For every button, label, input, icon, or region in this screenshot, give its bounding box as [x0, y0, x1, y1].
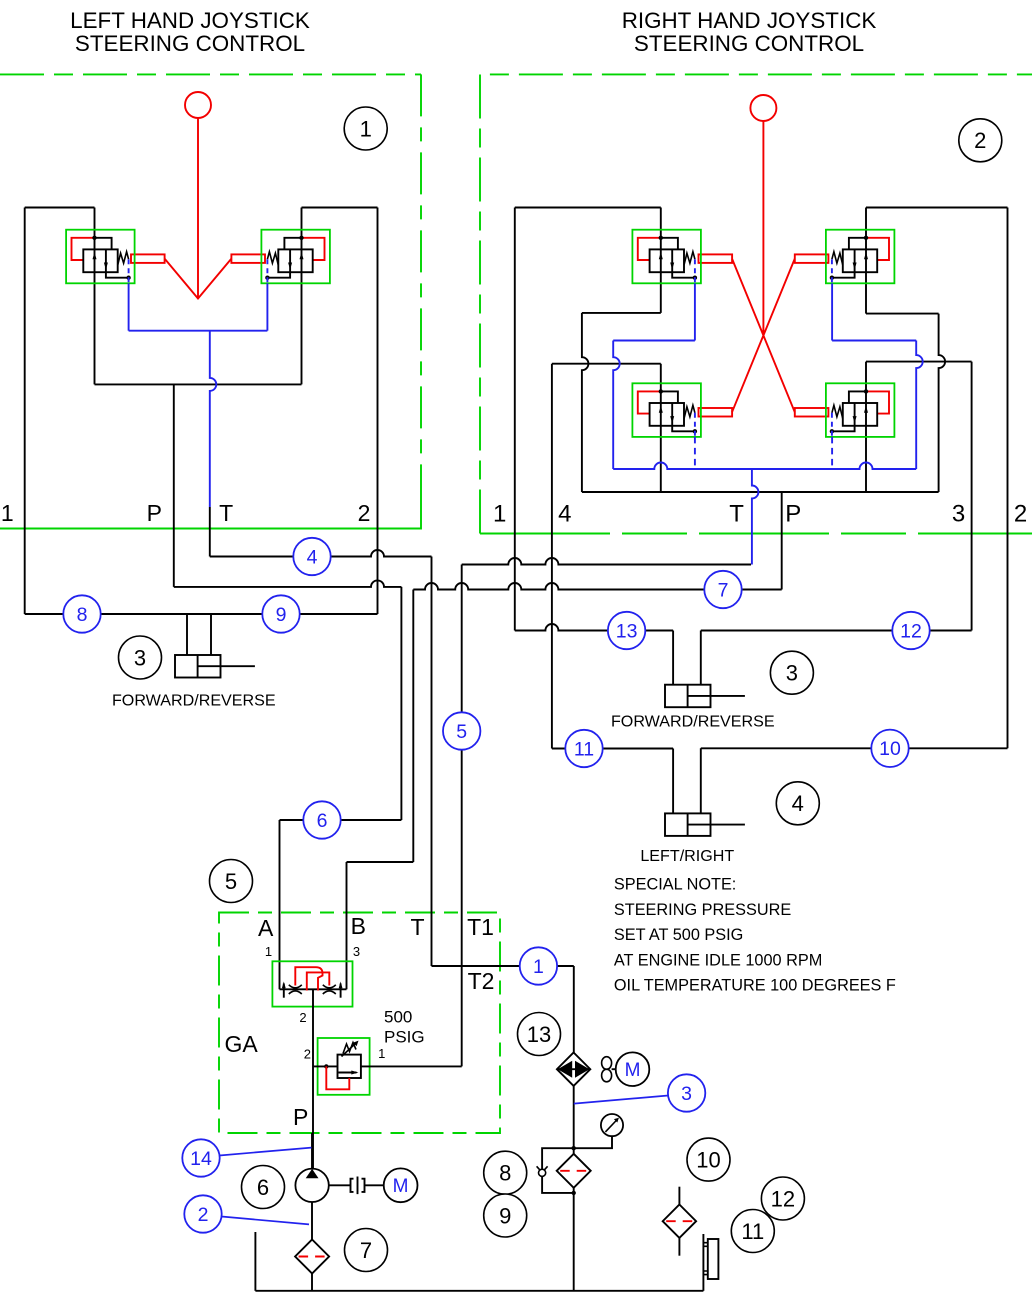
hose callout 10	[871, 730, 908, 767]
svg-text:6: 6	[257, 1175, 269, 1200]
wire: GA link B	[347, 861, 414, 863]
svg-text:14: 14	[190, 1148, 212, 1170]
electric motor M (fan)	[616, 1052, 650, 1086]
forward/reverse actuator (LH) rod	[198, 665, 255, 667]
gauge tap junction	[572, 1146, 576, 1150]
pilot valve RH-BL drain link	[672, 426, 695, 432]
wire: LH port 2 riser	[377, 208, 379, 615]
pilot valve LH-left body	[83, 249, 117, 272]
wire: cooler to filter	[573, 1086, 575, 1154]
wire: LH port 1 riser	[24, 208, 26, 615]
pilot valve RH-TR bypass line	[849, 238, 866, 250]
pusher pad RH bottom-right	[795, 408, 829, 417]
svg-text:500: 500	[384, 1008, 412, 1027]
svg-text:3: 3	[681, 1083, 692, 1105]
svg-text:B: B	[351, 913, 366, 939]
wire: hose 4 run (LH T to GA T2)	[210, 550, 432, 557]
pilot valve RH-BL green enclosure	[632, 383, 701, 437]
svg-text:3: 3	[786, 661, 798, 686]
wire: strainer to tank line	[311, 1273, 313, 1291]
svg-text:1: 1	[1, 500, 14, 526]
pilot valve RH-BL body	[650, 403, 684, 426]
pilot valve RH-BL flow arrow	[659, 406, 663, 413]
wire: LH tank header (blue)	[129, 330, 268, 332]
wire: RH TR valve main line	[865, 208, 867, 314]
offline filter element (red dashed)	[666, 1220, 692, 1222]
pusher pad right	[231, 254, 265, 263]
item callout 4	[776, 782, 819, 825]
breather tick upper	[703, 1243, 707, 1247]
wire: RH LR actuator drop left	[672, 749, 674, 814]
wire: tank bottom line	[255, 1290, 703, 1292]
pilot valve RH-TR green enclosure	[826, 230, 895, 284]
svg-text:9: 9	[276, 604, 287, 626]
item callout 7	[345, 1229, 388, 1272]
pilot valve LH-left green enclosure	[66, 230, 135, 284]
svg-text:12: 12	[900, 620, 922, 642]
pilot valve RH-TL red pilot loop	[638, 238, 661, 260]
svg-text:5: 5	[225, 869, 237, 894]
pilot valve LH-left spring	[118, 252, 129, 266]
left/right actuator (RH) piston divider	[687, 813, 689, 836]
pump shaft	[329, 1184, 351, 1186]
pilot valve LH-left flow arrow	[93, 252, 97, 259]
relief pilot tap junction	[324, 1064, 328, 1068]
wire: RH FR actuator drop right	[700, 631, 702, 685]
joystick handle ball (right)	[750, 95, 776, 121]
forward/reverse actuator (RH) rod	[688, 695, 745, 697]
hose callout 8	[63, 595, 100, 632]
wire: RH TR valve elbow	[866, 313, 939, 315]
wire: RH tank header TR (blue)	[832, 340, 916, 342]
wire: T2 link through callout 1	[432, 965, 574, 967]
wire: RH tank right drop (blue, jumps port3 link)	[916, 341, 923, 470]
svg-text:4: 4	[558, 501, 571, 528]
wire: RH FR actuator drop left	[672, 631, 674, 685]
wire: relief valve outlet to T1	[361, 1065, 462, 1067]
right joystick enclosure (dashed)	[480, 74, 1032, 533]
svg-text:P: P	[293, 1104, 308, 1130]
GA shuttle valve body line	[280, 988, 347, 990]
hose callout 2	[184, 1195, 221, 1232]
wire: GA B drop	[412, 590, 414, 863]
return filter element (red dashed)	[560, 1170, 587, 1172]
svg-text:A: A	[258, 915, 274, 941]
wire: tank stub	[254, 1232, 256, 1291]
pilot valve LH-right drain link	[267, 272, 290, 278]
pilot valve RH-TR reduced-flow spool line	[854, 249, 856, 272]
wire: hose 11 line	[552, 748, 673, 750]
pilot valve RH-BL bypass line	[661, 391, 678, 403]
wire: RH BR valve main line	[865, 362, 867, 492]
svg-text:FORWARD/REVERSE: FORWARD/REVERSE	[112, 691, 276, 709]
pilot valve RH-BR green enclosure	[826, 383, 895, 437]
left joystick enclosure (dashed)	[0, 73, 421, 75]
relief valve green enclosure	[318, 1038, 370, 1095]
relief valve spring	[343, 1043, 356, 1054]
pusher pad RH top-left	[699, 254, 733, 263]
wire: RH pressure header	[582, 491, 939, 493]
wire: pump suction	[311, 1202, 313, 1240]
svg-text:13: 13	[616, 620, 638, 642]
svg-text:13: 13	[527, 1022, 551, 1047]
wire: LH left valve main line	[94, 208, 96, 385]
wire: relief valve inlet	[313, 1065, 338, 1067]
wire: filter to tank	[573, 1188, 575, 1291]
forward/reverse actuator (LH) piston divider	[197, 655, 199, 678]
breather body	[708, 1239, 719, 1279]
pilot valve RH-TL reduced-flow spool line	[671, 249, 673, 272]
svg-text:LEFT/RIGHT: LEFT/RIGHT	[640, 847, 734, 865]
offline filter housing	[663, 1205, 696, 1238]
wire: RH port 3 riser	[971, 362, 973, 631]
relief valve adjust arrow	[342, 1043, 357, 1057]
pilot valve LH-left bypass line	[95, 238, 112, 250]
item callout 3	[770, 651, 813, 694]
pilot valve RH-BR flow arrow	[864, 406, 868, 413]
electric motor M (pump)	[384, 1168, 418, 1202]
filter bypass upper	[542, 1148, 574, 1169]
svg-text:5: 5	[456, 721, 467, 743]
svg-text:T2: T2	[468, 968, 495, 994]
hose callout 1	[520, 947, 557, 984]
item callout 6	[242, 1166, 285, 1209]
wire: hose run LH P to GA A	[174, 580, 402, 587]
wire: RH tank header TL (blue)	[613, 340, 695, 342]
left joystick enclosure right edge (dashed)	[420, 74, 422, 488]
wire: RH TL drop (jumps port4 line)	[582, 313, 589, 492]
wire: RH BR pilot drop (blue)	[831, 437, 833, 469]
wire: hose 13 line	[515, 624, 673, 631]
GA shuttle red outer pilot	[295, 967, 322, 990]
GA shuttle check arrow right	[340, 984, 342, 998]
pilot valve RH-BR bypass line	[849, 391, 866, 403]
wire: LH supply top left	[25, 207, 95, 209]
bypass junction	[572, 1191, 576, 1195]
svg-text:1: 1	[493, 501, 506, 528]
GA shuttle orifice left	[289, 985, 302, 988]
svg-text:AT ENGINE IDLE 1000 RPM: AT ENGINE IDLE 1000 RPM	[614, 951, 822, 969]
breather tick lower	[703, 1271, 707, 1275]
svg-text:T: T	[729, 501, 744, 528]
item callout 3	[119, 636, 162, 679]
forward/reverse actuator (LH) body	[175, 655, 221, 678]
pilot valve RH-TL pilot sense line (dashed)	[694, 259, 696, 283]
svg-text:6: 6	[317, 810, 328, 832]
svg-text:2: 2	[304, 1047, 311, 1062]
wire: RH BL valve main line	[660, 364, 662, 492]
svg-text:4: 4	[792, 791, 804, 816]
forward/reverse actuator (RH) piston divider	[687, 685, 689, 708]
wire: LH actuator rod drop left	[186, 614, 188, 655]
svg-text:P: P	[147, 500, 162, 526]
pump drive line	[311, 1133, 313, 1169]
svg-text:T: T	[219, 500, 233, 526]
cooler fan	[602, 1057, 612, 1070]
wire: GA shuttle port3 line	[346, 862, 348, 989]
wire: hose 5 run (RH T to GA T1)	[462, 558, 751, 564]
svg-text:3: 3	[353, 944, 360, 959]
pilot valve LH-right flow arrow	[300, 252, 304, 259]
pilot valve RH-BR reduced-flow spool line	[854, 403, 856, 426]
pump	[295, 1169, 328, 1202]
pilot valve LH-right supply junction	[299, 236, 303, 240]
pilot valve RH-TR pilot sense line (dashed)	[831, 259, 833, 283]
hose callout 12	[892, 612, 929, 649]
wire: RH TL valve elbow	[582, 312, 661, 314]
hose callout 11	[565, 730, 602, 767]
relief valve body	[338, 1055, 361, 1078]
svg-text:SPECIAL NOTE:: SPECIAL NOTE:	[614, 876, 736, 894]
svg-text:2: 2	[1014, 501, 1027, 528]
item callout 2	[959, 119, 1002, 162]
svg-text:2: 2	[198, 1204, 209, 1226]
pilot valve LH-left reduced-flow spool line	[105, 249, 107, 272]
svg-text:2: 2	[974, 128, 986, 153]
hose callout 4	[293, 538, 330, 575]
pilot valve LH-right bypass line	[284, 238, 301, 250]
GA shuttle valve green enclosure	[272, 961, 352, 1006]
joystick lever (right)	[732, 121, 795, 412]
svg-text:11: 11	[574, 738, 594, 760]
pilot valve RH-BR drain link	[832, 426, 855, 432]
wire: LH bridge line	[95, 383, 302, 385]
item callout 12	[761, 1177, 804, 1220]
pilot valve RH-BR pilot sense line (dashed)	[831, 413, 833, 437]
filter bypass lower	[542, 1176, 574, 1193]
wire: RH TR drop (jumps port3 line)	[939, 314, 946, 492]
pilot valve RH-TL bypass line	[661, 238, 678, 250]
wire: RH supply top left	[515, 207, 661, 209]
pilot valve RH-BR body	[843, 403, 877, 426]
svg-text:10: 10	[696, 1147, 720, 1172]
hose callout 9	[262, 595, 299, 632]
oil cooler	[557, 1053, 590, 1086]
pressure gauge	[601, 1114, 623, 1136]
wire: GA T drop	[431, 557, 433, 967]
wire: GA link A	[280, 819, 402, 821]
relief valve flow arrow	[339, 1072, 357, 1074]
svg-text:RIGHT HAND JOYSTICK: RIGHT HAND JOYSTICK	[622, 8, 877, 33]
fan shaft	[612, 1068, 616, 1070]
pilot valve RH-TR red pilot loop	[866, 238, 889, 260]
wire: LH tank pilot left (blue)	[128, 283, 130, 289]
joystick handle ball (left)	[185, 92, 211, 118]
svg-text:STEERING CONTROL: STEERING CONTROL	[634, 31, 864, 56]
svg-text:T1: T1	[467, 914, 494, 940]
pusher pad RH bottom-left	[699, 408, 733, 417]
svg-text:3: 3	[134, 645, 146, 670]
svg-text:11: 11	[741, 1219, 764, 1244]
bypass check valve	[539, 1169, 546, 1176]
pilot valve LH-right body	[278, 249, 312, 272]
left/right actuator (RH) body	[665, 813, 711, 836]
pilot valve LH-right spring	[267, 252, 278, 266]
svg-text:1: 1	[265, 944, 272, 959]
leader for callout 2 (blue)	[222, 1217, 310, 1225]
wire: LH T drop (blue, jumps bridge)	[210, 331, 217, 507]
item callout 11	[731, 1210, 774, 1253]
svg-text:10: 10	[879, 738, 901, 760]
wire: RH port4 link	[552, 363, 661, 365]
offline filter outlet stub	[678, 1238, 680, 1256]
pilot valve RH-TL flow arrow	[659, 252, 663, 259]
offline filter inlet stub	[678, 1187, 680, 1205]
wire: RH TL pilot drop (blue)	[694, 283, 696, 340]
svg-text:LEFT HAND JOYSTICK: LEFT HAND JOYSTICK	[70, 8, 310, 33]
svg-text:M: M	[393, 1176, 409, 1197]
pilot valve RH-TR drain link	[832, 272, 855, 278]
wire: LH actuator rod drop right	[210, 614, 212, 655]
wire: hose 8 / hose 9 line	[25, 613, 378, 615]
pusher pad RH top-right	[795, 254, 829, 263]
wire: GA pressure line	[312, 989, 314, 1168]
pilot valve RH-BL supply junction	[659, 389, 663, 393]
suction strainer housing	[295, 1240, 329, 1274]
hose callout 7	[704, 571, 741, 608]
leader for callout 3 (blue)	[574, 1096, 668, 1104]
svg-text:PSIG: PSIG	[384, 1028, 425, 1047]
pilot valve RH-BL reduced-flow spool line	[671, 403, 673, 426]
svg-text:8: 8	[77, 604, 88, 626]
pilot valve RH-BR spring	[832, 405, 843, 419]
wire: LH right valve main line	[301, 208, 303, 385]
svg-text:9: 9	[499, 1203, 511, 1228]
joystick lever (left)	[165, 118, 232, 299]
svg-text:1: 1	[533, 956, 544, 978]
item callout 1	[344, 107, 387, 150]
svg-text:OIL TEMPERATURE 100 DEGREES F: OIL TEMPERATURE 100 DEGREES F	[614, 977, 896, 995]
pilot valve RH-TL body	[650, 249, 684, 272]
item callout 8	[484, 1151, 527, 1194]
svg-text:P: P	[785, 501, 801, 528]
item callout 5	[210, 860, 253, 903]
svg-text:1: 1	[378, 1046, 385, 1061]
hose callout 14	[182, 1139, 219, 1176]
coupling	[351, 1177, 365, 1195]
GA shuttle orifice right	[323, 985, 336, 988]
svg-text:2: 2	[299, 1010, 306, 1025]
svg-text:FORWARD/REVERSE: FORWARD/REVERSE	[611, 713, 775, 731]
wire: RH port 2 riser	[1007, 208, 1009, 749]
wire: GA A drop	[400, 587, 402, 820]
svg-text:T: T	[410, 914, 424, 940]
wire: LH tank pilot right (blue)	[266, 283, 268, 289]
svg-text:7: 7	[360, 1238, 372, 1263]
pilot valve LH-right pilot sense line (dashed)	[266, 259, 268, 283]
GA shuttle check arrow left	[283, 984, 285, 998]
wire: hose 12 line	[701, 630, 972, 632]
wire: LH P drop	[173, 384, 175, 587]
wire: RH tank bottom header (blue)	[613, 463, 916, 470]
pilot valve RH-TR supply junction	[864, 236, 868, 240]
wire: LH supply top right	[302, 207, 378, 209]
wire: LH T drop lower	[209, 507, 211, 557]
svg-text:12: 12	[771, 1186, 795, 1211]
svg-text:7: 7	[718, 579, 729, 601]
GA shuttle red inner pilot	[307, 972, 330, 990]
wire: RH supply top right	[866, 207, 1008, 209]
return filter housing	[557, 1154, 591, 1188]
leader for callout 14 (blue)	[220, 1148, 312, 1156]
pusher pad left	[131, 254, 165, 263]
wire: hose 10 line	[701, 747, 1008, 749]
svg-text:4: 4	[307, 546, 318, 568]
breather standpipe	[702, 1234, 704, 1291]
pilot valve RH-BL red pilot loop	[638, 391, 661, 413]
pilot valve RH-TL supply junction	[659, 236, 663, 240]
pilot valve LH-left pilot sense line (dashed)	[128, 259, 130, 283]
pilot valve LH-right red pilot loop	[302, 238, 325, 260]
svg-text:GA: GA	[225, 1031, 259, 1057]
forward/reverse actuator (RH) body	[665, 685, 711, 708]
pilot valve RH-TL green enclosure	[632, 230, 701, 284]
pilot valve LH-left red pilot loop	[72, 238, 95, 260]
wire: RH TR pilot drop (blue)	[831, 283, 833, 340]
pilot valve RH-BR red pilot loop	[866, 391, 889, 413]
pilot valve LH-right green enclosure	[261, 230, 330, 284]
wire: RH TL valve main line	[660, 208, 662, 313]
hose callout 13	[608, 612, 645, 649]
item callout 9	[484, 1194, 527, 1237]
svg-text:2: 2	[358, 500, 371, 526]
pilot valve RH-TR body	[843, 249, 877, 272]
svg-text:STEERING PRESSURE: STEERING PRESSURE	[614, 901, 791, 919]
pilot valve RH-TR flow arrow	[864, 252, 868, 259]
item callout 13	[518, 1013, 561, 1056]
pilot valve RH-TR spring	[832, 252, 843, 266]
pilot valve LH-left supply junction	[92, 236, 96, 240]
wire: RH P drop	[781, 492, 783, 590]
wire: RH port 4 riser	[551, 364, 553, 749]
item callout 10	[687, 1138, 730, 1181]
pilot valve RH-TL spring	[684, 252, 695, 266]
wire: RH LR actuator drop right	[700, 748, 702, 813]
wire: RH tank left drop (blue, jumps port4 link)	[613, 341, 620, 470]
pilot valve RH-BL spring	[684, 405, 695, 419]
GA manifold enclosure (dashed)	[219, 913, 500, 1134]
left/right actuator (RH) rod	[688, 824, 745, 826]
suction strainer element (red dashed)	[299, 1256, 326, 1258]
svg-text:8: 8	[499, 1161, 511, 1186]
hose callout 5	[443, 712, 480, 749]
wire: RH BL pilot drop (blue)	[694, 437, 696, 469]
pilot valve RH-BR supply junction	[864, 389, 868, 393]
left joystick enclosure bottom edge	[0, 488, 421, 529]
svg-text:STEERING CONTROL: STEERING CONTROL	[75, 31, 305, 56]
wire: cooler feed drop	[573, 966, 575, 1053]
right joystick enclosure bottom edge (dashed)	[480, 533, 1032, 535]
pilot valve RH-BL pilot sense line (dashed)	[694, 413, 696, 437]
wire: GA T1 drop	[461, 565, 463, 1067]
hose callout 6	[303, 801, 340, 838]
svg-text:SET AT 500 PSIG: SET AT 500 PSIG	[614, 926, 743, 944]
pilot valve LH-right reduced-flow spool line	[289, 249, 291, 272]
relief valve red pilot	[326, 1066, 349, 1089]
svg-text:M: M	[625, 1060, 641, 1081]
motor shaft	[365, 1184, 384, 1186]
hose callout 3	[668, 1074, 705, 1111]
svg-text:3: 3	[952, 501, 965, 528]
wire: RH port3 link	[866, 361, 972, 363]
wire: RH port 1 riser	[514, 208, 516, 631]
pilot valve RH-TL drain link	[672, 272, 695, 278]
wire: GA shuttle port1 line	[279, 820, 281, 989]
gauge stem	[574, 1136, 612, 1148]
pilot valve LH-left drain link	[106, 272, 129, 278]
svg-text:1: 1	[360, 116, 372, 141]
wire: RH T drop (blue, jumps pressure header)	[752, 469, 759, 565]
